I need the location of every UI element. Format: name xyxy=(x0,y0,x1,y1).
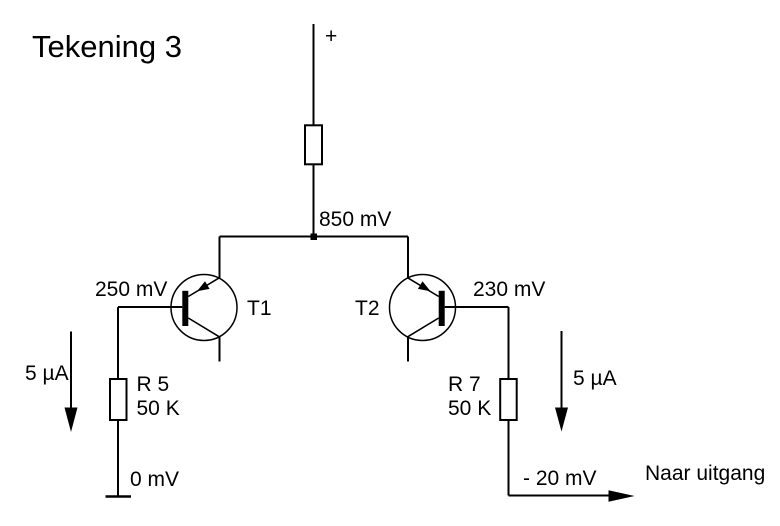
wire R7 down xyxy=(508,421,510,496)
svg-text:- 20 mV: - 20 mV xyxy=(523,467,597,490)
output arrowhead xyxy=(609,490,635,501)
svg-text:250 mV: 250 mV xyxy=(95,278,167,301)
wire T1 base horizontal xyxy=(118,306,182,308)
svg-text:850 mV: 850 mV xyxy=(319,208,391,231)
svg-text:50 K: 50 K xyxy=(448,397,491,420)
svg-text:0 mV: 0 mV xyxy=(130,468,179,491)
wire T2 emitter vertical xyxy=(407,237,409,279)
svg-text:50 K: 50 K xyxy=(137,397,180,420)
svg-text:Naar uitgang: Naar uitgang xyxy=(645,462,765,485)
wire R5 to ground xyxy=(117,421,119,497)
wire T2 collector stub xyxy=(407,337,409,362)
wire T1 collector stub xyxy=(219,337,221,362)
svg-text:5 µA: 5 µA xyxy=(573,367,617,390)
current arrow left 5 uA xyxy=(65,332,78,433)
svg-text:Tekening 3: Tekening 3 xyxy=(32,29,182,64)
wire supply vertical upper xyxy=(313,24,315,125)
svg-text:+: + xyxy=(325,25,337,48)
svg-text:230 mV: 230 mV xyxy=(473,278,545,301)
svg-text:5 µA: 5 µA xyxy=(25,362,69,385)
resistor R5 xyxy=(110,379,127,420)
wire top rail horizontal xyxy=(220,236,409,238)
transistor T1 xyxy=(171,275,237,341)
svg-text:T2: T2 xyxy=(355,297,380,320)
wire T2 base vertical down xyxy=(508,307,510,378)
svg-text:T1: T1 xyxy=(247,297,272,320)
resistor R7 xyxy=(500,379,517,420)
svg-text:R 5: R 5 xyxy=(137,373,170,396)
wire supply vertical lower xyxy=(313,165,315,237)
current arrow right 5 uA xyxy=(555,331,568,432)
wire T1 emitter vertical xyxy=(219,237,221,279)
transistor T2 xyxy=(390,275,456,341)
wire output horizontal xyxy=(509,495,613,497)
node junction dot xyxy=(311,234,318,241)
wire T1 base vertical down xyxy=(117,307,119,378)
wire T2 base horizontal xyxy=(445,306,509,308)
ground xyxy=(106,495,132,498)
svg-text:R 7: R 7 xyxy=(448,373,481,396)
resistor R (top, unlabeled) xyxy=(305,125,322,164)
